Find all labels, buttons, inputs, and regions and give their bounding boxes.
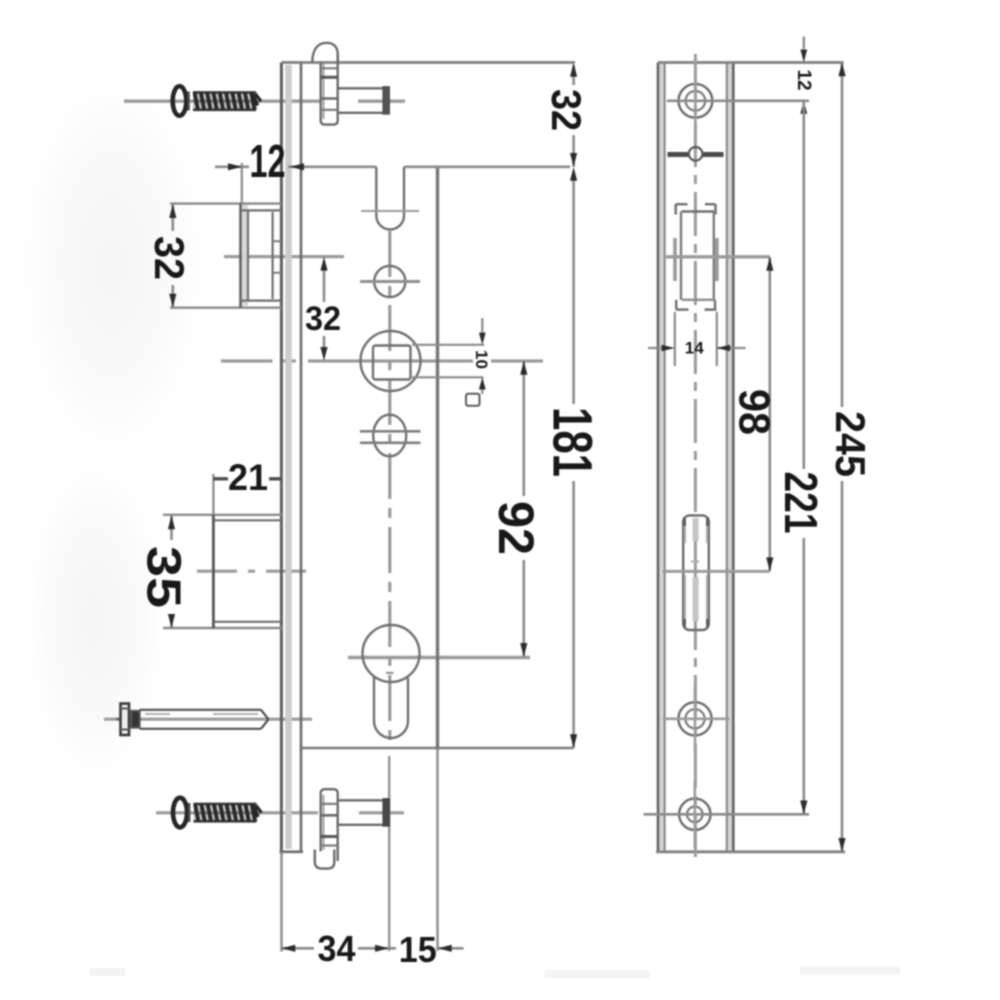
plate top edge + ext to 245: [658, 61, 844, 64]
svg-text:14: 14: [685, 339, 704, 358]
case top edge / 12 dim line (gaps for text and U-slot): [215, 166, 570, 169]
lower screw hole: [678, 702, 711, 735]
svg-text:35: 35: [137, 546, 190, 608]
euro profile cylinder hole: [363, 625, 420, 738]
faint ghost wash left margin: [20, 75, 204, 455]
faceplate top edge + extension to 32 dim: [281, 61, 575, 64]
bottom dims 34 / 15: [280, 852, 282, 952]
plate vertical centerline: [694, 54, 697, 860]
centerline euro cylinder y=657.5: [348, 656, 530, 659]
bottom wood screw: [173, 798, 262, 828]
plate outline: [657, 63, 660, 852]
latch centerline to 98 dim: [666, 255, 770, 258]
top wood screw: [173, 86, 261, 116]
faint artifacts bottom: [90, 968, 125, 976]
case bottom edge + extension to 181 dim: [301, 747, 574, 750]
U-slot top opening: [376, 167, 404, 230]
dim 21: [212, 474, 214, 514]
centerline long pin y=719: [104, 718, 312, 721]
euro center tick: [386, 672, 394, 674]
svg-text:181: 181: [542, 407, 605, 477]
dim 245: [841, 63, 844, 852]
dim 10 square follower: [412, 344, 484, 346]
U-slot hidden line: [361, 210, 419, 212]
plate bottom edge + ext to 245: [656, 850, 845, 853]
dim 221: [802, 101, 805, 815]
deadbolt slot front view: [683, 515, 709, 630]
svg-text:21: 21: [228, 457, 268, 498]
svg-text:12: 12: [793, 69, 814, 90]
latch cutout front view: [676, 204, 717, 309]
dim 181 (case height): [572, 180, 575, 748]
svg-text:98: 98: [730, 389, 779, 435]
svg-text:15: 15: [399, 929, 437, 970]
top barrel bolt: [312, 43, 389, 125]
bottom hole: [679, 799, 710, 830]
svg-text:245: 245: [827, 411, 874, 477]
dim 14: [674, 312, 676, 366]
svg-text:32: 32: [543, 89, 590, 131]
vertical centerline lock body x=390: [388, 231, 391, 745]
dim 12 small top right: [803, 37, 805, 50]
dim 92 (spindle center to euro center): [522, 361, 525, 657]
centerline latch y=256.5: [224, 255, 344, 258]
hole B obround y=435.5: [373, 415, 406, 457]
svg-text:221: 221: [775, 472, 827, 534]
svg-text:34: 34: [318, 928, 356, 969]
centerline deadbolt y=571: [197, 570, 317, 573]
faceplate front surface line: [280, 63, 283, 852]
svg-text:12: 12: [250, 135, 286, 187]
deadbolt slot centerline to 98 dim: [663, 570, 770, 573]
vertical centerline extension to bottom dimension: [388, 756, 390, 951]
dim 12 arrows: [228, 163, 242, 170]
dim 32 latch: line + arrows + text: [172, 204, 175, 307]
latch gray shading: [242, 205, 248, 306]
centerline top fastener row y=101: [124, 99, 320, 102]
top screw hole: [679, 84, 713, 118]
case right edge + extension down to bottom dims: [436, 167, 439, 748]
faceplate edge view: gray shading band: [285, 65, 292, 849]
dim 32 top (plate top to case top): [572, 65, 575, 167]
dim 32 mid (latch center to spindle center): [323, 270, 326, 302]
keyhole slot: [668, 152, 689, 157]
dim 98: [768, 257, 771, 571]
svg-text:92: 92: [488, 501, 544, 555]
dim 12 extension to latch face: [241, 163, 243, 204]
plate gray bands: [659, 64, 664, 850]
svg-text:32: 32: [305, 300, 341, 338]
dim 35: [170, 515, 173, 627]
svg-text:32: 32: [146, 236, 193, 280]
faceplate rear / case front line: [300, 63, 303, 852]
centerline bottom fastener y=813: [156, 811, 318, 814]
svg-text:10: 10: [472, 350, 491, 369]
faceplate bottom edge: [280, 850, 304, 853]
hole A small circle y=281.5: [374, 266, 405, 297]
centerline spindle y=361: [221, 359, 543, 362]
bottom barrel bolt (mirrored): [315, 789, 389, 868]
long connecting pin: [117, 704, 269, 736]
spindle follower circle + square: [361, 331, 421, 391]
